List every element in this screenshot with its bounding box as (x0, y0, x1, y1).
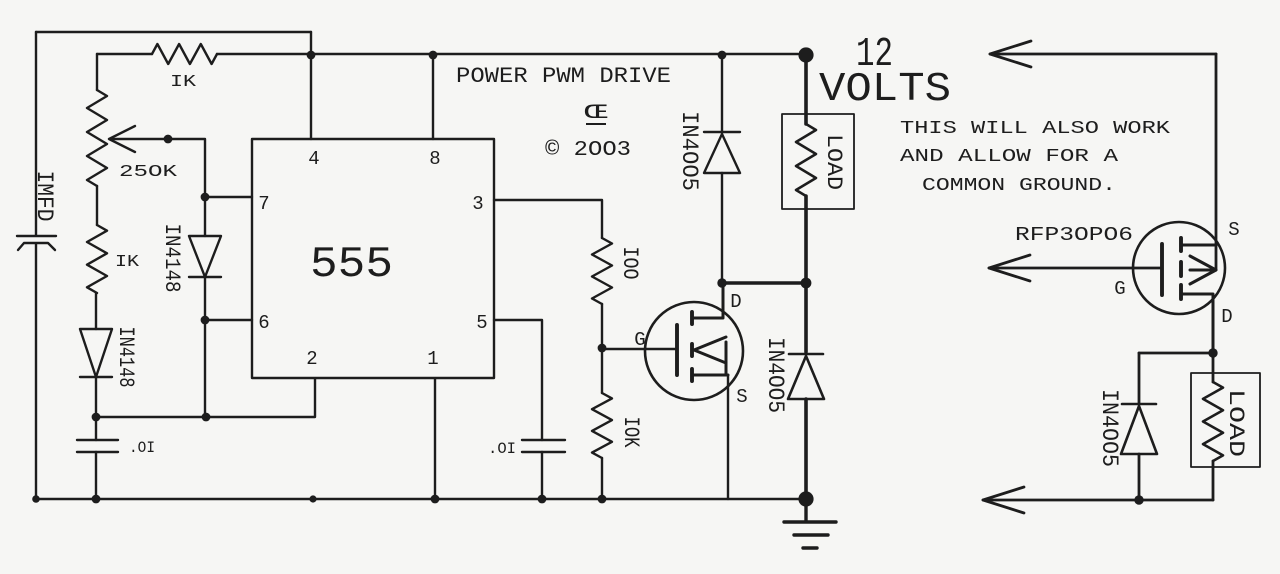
transistor Q2 source stub (1181, 244, 1216, 247)
transistor Q2 drain stub (1181, 294, 1213, 353)
wire pin5 to C3 (494, 320, 542, 440)
wire LOAD1 to drain node (804, 196, 808, 283)
wire left rail lower (1MFD bottom to ground rail) (35, 244, 37, 499)
wire pot to R3 lead (96, 186, 98, 225)
svg-text:© 2OO3: © 2OO3 (545, 139, 631, 162)
node pin8 junction (429, 51, 438, 60)
svg-text:2: 2 (306, 348, 317, 370)
svg-text:POWER PWM DRIVE: POWER PWM DRIVE (456, 64, 671, 89)
wire R5 to ground rail (601, 458, 603, 499)
node ground rail small junction (309, 495, 316, 502)
svg-text:IK: IK (170, 73, 197, 92)
node wiper junction (164, 135, 173, 144)
wire arrow top (to 12V source) (990, 41, 1216, 67)
resistor R4 100 (592, 238, 612, 304)
node D2 C2 junction (92, 413, 101, 422)
node pin2 wire junction (202, 413, 211, 422)
svg-text:AND ALLOW FOR A: AND ALLOW FOR A (900, 147, 1118, 167)
svg-text:VOLTS: VOLTS (819, 67, 951, 113)
svg-text:IOK: IOK (618, 417, 643, 449)
svg-text:S: S (1228, 219, 1239, 241)
svg-text:D: D (1221, 306, 1232, 328)
resistor LOAD1 element (796, 124, 816, 196)
IC U1 555 body (252, 139, 494, 378)
resistor R1 1K (top) (152, 44, 217, 64)
wire wiper to pin7 branch (112, 139, 205, 197)
resistor R3 1K (lower) (87, 225, 107, 293)
transistor Q1 source stub (692, 374, 728, 377)
node drain junction left (717, 278, 726, 287)
wire gate node down to R5 (601, 348, 603, 393)
node D5 bottom junction (1134, 495, 1143, 504)
node pin1 ground junction (431, 495, 440, 504)
svg-text:5: 5 (476, 312, 487, 334)
wire arrow gate (to 555 output) (989, 255, 1162, 281)
svg-text:LOAD: LOAD (821, 134, 846, 190)
wire drain node horizontal (722, 281, 806, 285)
node C2 ground junction (92, 495, 101, 504)
svg-text:25OK: 25OK (119, 163, 178, 182)
wire C2 to ground rail (95, 452, 97, 499)
transistor Q1 N-channel MOSFET body circle (645, 302, 743, 400)
wire Q1 source to ground rail (727, 375, 729, 499)
wire pin6 node down to pin2 wire (204, 320, 206, 417)
transistor Q2 gate bar (1160, 244, 1164, 295)
node 12 volts terminal (798, 47, 813, 62)
svg-text:IOO: IOO (617, 247, 642, 280)
svg-text:G: G (634, 329, 645, 351)
svg-text:6: 6 (258, 312, 269, 334)
node pin6 junction (201, 316, 210, 325)
diode D2 IN4148 (left column, cathode down) (80, 329, 112, 377)
ground symbol (784, 499, 836, 548)
wire drain node to ground terminal (804, 283, 808, 499)
wire pin2 to left column (95, 379, 315, 417)
svg-text:.OI: .OI (488, 440, 516, 458)
diode D1 IN4148 (cathode down at pin6 node) (189, 236, 221, 277)
load box LOAD2 (1191, 373, 1260, 467)
load box LOAD1 (782, 114, 854, 209)
diode D5 IN4005 (across LOAD2, cathode up) (1121, 404, 1157, 454)
potentiometer wiper arrow (109, 126, 135, 152)
wire D5 bottom lead (1138, 454, 1141, 500)
wire LOAD2 to bottom arrow wire (1212, 461, 1215, 500)
transistor Q1 drain stub (692, 284, 723, 318)
resistor R5 10K (592, 393, 612, 458)
svg-text:THIS WILL ALSO WORK: THIS WILL ALSO WORK (900, 119, 1170, 139)
wire pot top lead (96, 54, 98, 90)
wire D3 to drain node (721, 173, 723, 283)
svg-text:8: 8 (429, 148, 440, 170)
resistor LOAD2 element (1203, 382, 1223, 461)
svg-text:3: 3 (472, 193, 483, 215)
node D3 top junction (718, 51, 727, 60)
wire R4 to gate node (601, 304, 603, 348)
wire 12V terminal to LOAD1 (804, 55, 808, 124)
svg-text:IN4148: IN4148 (113, 327, 138, 388)
node Q2 drain junction (1208, 348, 1217, 357)
wire left rail upper (1MFD cap top lead) (35, 32, 37, 235)
svg-text:IN4OO5: IN4OO5 (676, 111, 702, 191)
wire pin8 vertical (432, 55, 434, 139)
potentiometer R2 250K (87, 90, 107, 186)
svg-text:555: 555 (310, 240, 393, 290)
svg-text:S: S (736, 386, 747, 408)
wire drain node 2 horizontal (1139, 352, 1213, 355)
diode D3 IN4005 (flyback, cathode up) (704, 132, 740, 173)
wire pin3 to R4 (494, 200, 602, 238)
wire 12V rail to D3 (721, 55, 723, 132)
node pin7 junction (201, 193, 210, 202)
svg-text:IN4OO5: IN4OO5 (762, 337, 788, 413)
capacitor C3 .01 (522, 440, 565, 452)
transistor Q2 channel ticks (1179, 238, 1183, 299)
capacitor C2 .01 (77, 440, 118, 452)
transistor Q2 body arrow (points right) (1190, 256, 1216, 284)
node ground terminal (798, 491, 813, 506)
wire top supply rail to 12V terminal (217, 53, 798, 55)
wire pin4 vertical (310, 32, 312, 139)
svg-text:4: 4 (308, 148, 319, 170)
node C3 ground junction (538, 495, 547, 504)
node ground rail left corner (32, 495, 40, 503)
svg-text:LOAD: LOAD (1223, 389, 1248, 457)
transistor Q1 body arrow (694, 337, 726, 375)
transistor Q1 gate bar (675, 325, 679, 375)
wire Q2 source vertical (1215, 54, 1218, 270)
wire bottom ground rail (36, 498, 806, 500)
svg-text:.OI: .OI (129, 439, 155, 457)
svg-text:IN4148: IN4148 (159, 224, 184, 293)
node drain junction right (801, 278, 812, 289)
wire drain node 2 to LOAD2 (1212, 353, 1215, 382)
svg-text:1: 1 (427, 348, 438, 370)
wire D1 leads (204, 197, 206, 320)
svg-text:Œ: Œ (585, 102, 608, 125)
wire pin6 stub (205, 319, 252, 321)
svg-text:RFP3OPO6: RFP3OPO6 (1015, 224, 1133, 246)
svg-text:G: G (1114, 278, 1125, 300)
wire top supply rail left lead (97, 53, 152, 55)
node pin4 / outer loop junction (307, 51, 316, 60)
wire pin1 to ground rail (434, 379, 436, 499)
node gate junction (598, 344, 607, 353)
wire D5 top lead (1138, 353, 1141, 404)
wire gate node to Q1 gate (602, 348, 677, 350)
wire pin7 stub (205, 196, 252, 198)
wire arrow bottom (common ground return) (983, 487, 1213, 513)
transistor Q1 channel ticks (690, 312, 694, 381)
wire R3 to D2 lead (95, 293, 97, 329)
transistor Q2 P-channel MOSFET body circle (1133, 222, 1225, 314)
diode D4 IN4005 (across Q1, cathode up) (788, 354, 824, 399)
capacitor C1 1MFD (17, 236, 56, 250)
label logo underline (586, 123, 606, 125)
svg-text:7: 7 (258, 193, 269, 215)
svg-text:IK: IK (115, 253, 140, 272)
wire top outer loop from 1MFD top to pin4 node (36, 31, 311, 33)
svg-text:COMMON GROUND.: COMMON GROUND. (922, 176, 1116, 196)
wire D2 to C2 node (95, 377, 97, 440)
node R5 ground junction (598, 495, 607, 504)
wire C3 to ground rail (541, 452, 543, 499)
svg-text:IMFD: IMFD (31, 171, 57, 222)
svg-text:D: D (730, 291, 741, 313)
svg-text:IN4OO5: IN4OO5 (1096, 389, 1122, 467)
